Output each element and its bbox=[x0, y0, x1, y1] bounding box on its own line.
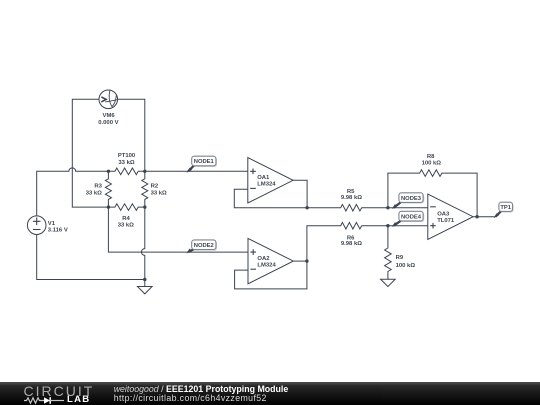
svg-text:V1: V1 bbox=[48, 221, 56, 227]
svg-text:NODE1: NODE1 bbox=[194, 159, 215, 165]
svg-text:R3: R3 bbox=[94, 183, 102, 189]
svg-text:LM324: LM324 bbox=[257, 182, 276, 188]
svg-text:TL071: TL071 bbox=[437, 218, 455, 224]
svg-text:NODE2: NODE2 bbox=[194, 243, 214, 249]
svg-text:NODE3: NODE3 bbox=[401, 196, 422, 202]
svg-text:0.000 V: 0.000 V bbox=[98, 120, 118, 126]
svg-text:3.116 V: 3.116 V bbox=[48, 227, 68, 233]
svg-text:TP1: TP1 bbox=[500, 205, 511, 211]
svg-text:R9: R9 bbox=[396, 255, 404, 261]
svg-text:VM6: VM6 bbox=[103, 113, 116, 119]
svg-text:LM324: LM324 bbox=[257, 262, 276, 268]
svg-text:R2: R2 bbox=[151, 183, 159, 189]
svg-text:PT100: PT100 bbox=[118, 153, 136, 159]
svg-text:33 kΩ: 33 kΩ bbox=[86, 191, 102, 197]
svg-text:OA3: OA3 bbox=[437, 212, 450, 218]
svg-text:9.98 kΩ: 9.98 kΩ bbox=[341, 241, 362, 247]
svg-text:100 kΩ: 100 kΩ bbox=[396, 263, 416, 269]
svg-text:R8: R8 bbox=[427, 154, 435, 160]
svg-text:OA1: OA1 bbox=[257, 175, 270, 181]
svg-text:NODE4: NODE4 bbox=[401, 214, 422, 220]
svg-text:33 kΩ: 33 kΩ bbox=[151, 191, 167, 197]
svg-text:R4: R4 bbox=[122, 216, 130, 222]
svg-text:33 kΩ: 33 kΩ bbox=[118, 160, 134, 166]
svg-text:9.98 kΩ: 9.98 kΩ bbox=[341, 195, 362, 201]
svg-text:OA2: OA2 bbox=[257, 256, 270, 262]
svg-text:33 kΩ: 33 kΩ bbox=[118, 223, 134, 229]
svg-text:100 kΩ: 100 kΩ bbox=[422, 161, 442, 167]
